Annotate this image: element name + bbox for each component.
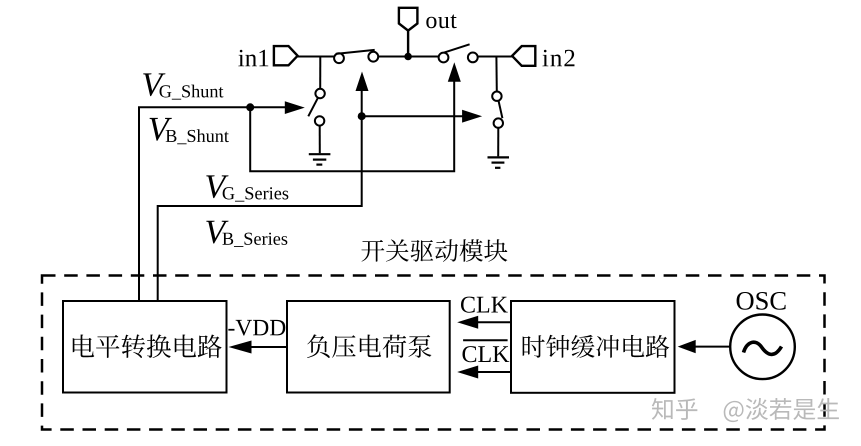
switch S1 contact circle right (368, 52, 378, 62)
label switch driver module title (361, 239, 507, 262)
switch S2 contact circle left (439, 53, 449, 63)
switch SH2 contact circle bottom (494, 118, 503, 127)
port out (399, 8, 418, 31)
switch S2 lever (444, 44, 470, 52)
block clock buffer box (511, 301, 675, 393)
wire CLK (476, 321, 511, 323)
ground shunt2 (488, 157, 510, 167)
switch S2 contact circle right (468, 53, 478, 63)
label CLKbar overline (463, 339, 508, 341)
port in1 (274, 46, 298, 65)
arrow CLKbar into charge pump (457, 366, 478, 379)
wire OSC to clock buffer (694, 346, 730, 348)
label in2 (542, 50, 574, 67)
switch SH2 lever (499, 101, 503, 119)
label CLK (461, 297, 508, 313)
switch SH2 contact circle top (492, 92, 501, 101)
node out junction (404, 53, 412, 61)
switch SH1 contact circle top (315, 89, 324, 98)
wire shunt2 to ground (497, 128, 499, 157)
switch S1 lever (336, 50, 375, 54)
node VG_Shunt junction (246, 103, 254, 111)
wire shunt1 to ground (319, 126, 321, 154)
label in1 (238, 50, 268, 67)
arrow into level shifter (229, 341, 252, 354)
block charge pump text (307, 334, 431, 358)
arrow CLK into charge pump (457, 316, 478, 329)
label V_B_Shunt (150, 118, 172, 141)
label out (426, 14, 456, 28)
watermark zhihu (652, 398, 839, 422)
switch SH1 lever (308, 98, 318, 117)
arrow to SH2 gate (462, 110, 482, 123)
oscillator OSC circle (730, 315, 795, 380)
port in2 (512, 46, 535, 66)
wire VB_Series branch (362, 115, 463, 117)
wire out stem (407, 31, 409, 57)
wire charge pump to level shifter (250, 346, 287, 348)
wire VG_Series from level shifter (158, 91, 362, 301)
ground shunt1 (309, 154, 331, 164)
wire shunt1 tap (319, 57, 321, 89)
dashed module boundary box (42, 276, 825, 430)
wire series1 to series2 (378, 56, 439, 58)
label V_G_Shunt (143, 73, 165, 96)
block clock buffer text (523, 335, 670, 358)
arrow into clock buffer (678, 340, 696, 353)
switch SH1 contact circle bottom (315, 116, 324, 125)
arrow to S2 gate (448, 62, 461, 81)
block charge pump box (287, 301, 450, 393)
label OSC (737, 292, 786, 310)
label -VDD (228, 320, 285, 336)
label CLKbar (462, 346, 509, 362)
wire VB_Shunt branch (250, 82, 454, 172)
wire series2 to in2 (478, 56, 513, 58)
wire CLKbar (478, 371, 511, 373)
label V_G_Series (206, 175, 228, 198)
oscillator sine wave (744, 342, 782, 354)
label V_B_Series (206, 221, 228, 244)
arrow to SH1 gate (285, 101, 305, 114)
block level shifter box (63, 301, 227, 393)
wire in1 to series switch 1 (297, 56, 335, 58)
wire VG_Shunt from level shifter (139, 107, 287, 301)
arrow to S1 gate (356, 72, 369, 92)
switch S1 contact circle left (334, 53, 344, 63)
node VG_Series junction (358, 112, 366, 120)
block level shifter text (73, 334, 222, 358)
wire shunt2 tap (495, 57, 497, 92)
